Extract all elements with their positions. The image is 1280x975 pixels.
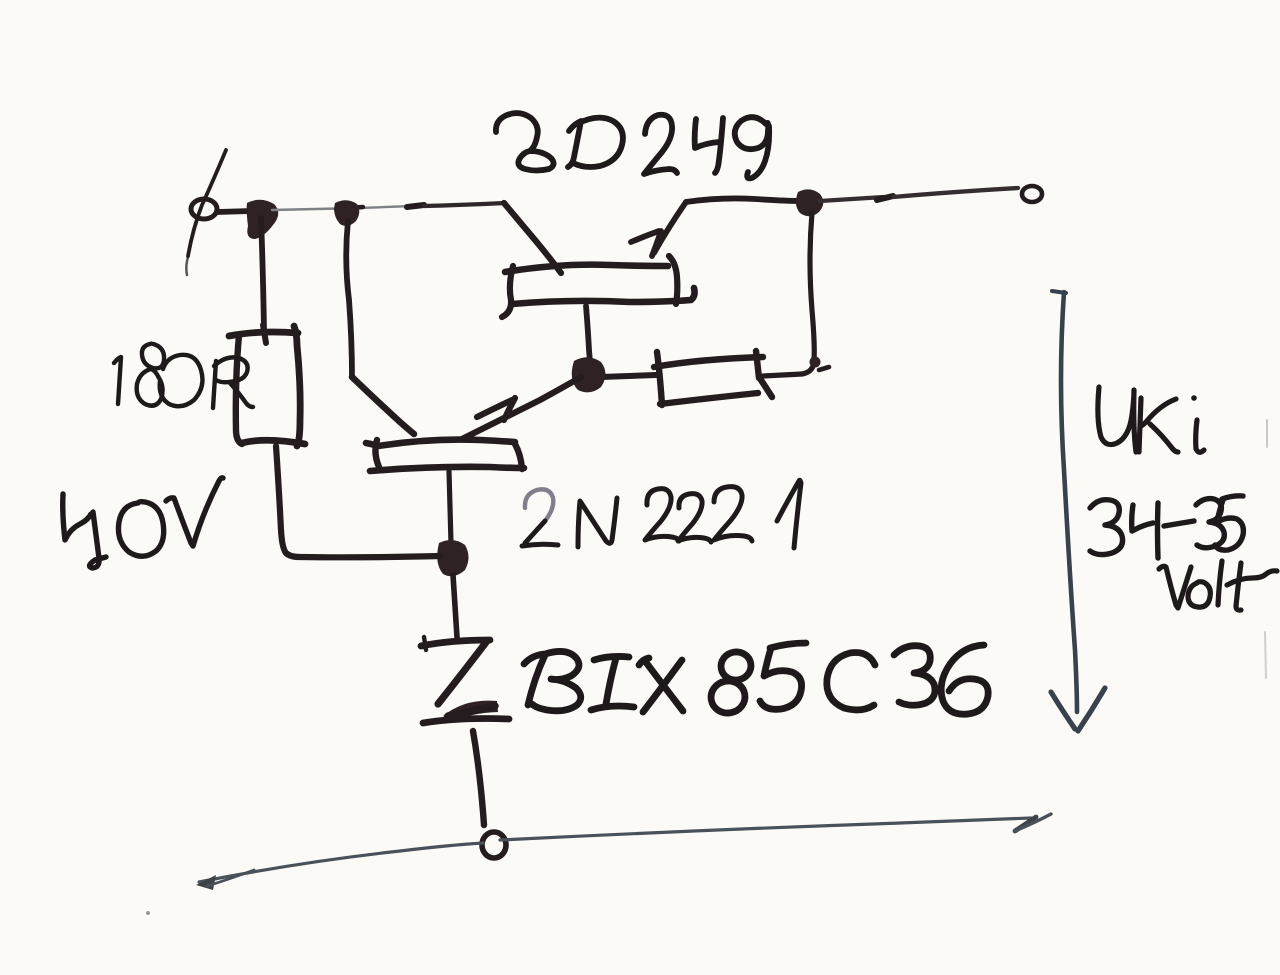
node C (junction, top right) — [796, 189, 823, 216]
wire zener bottom lead — [473, 731, 484, 825]
wire zener top lead (from node E) — [453, 575, 457, 637]
label Volt (right) — [1159, 561, 1277, 610]
wire top middle (thin pencil-like section) — [272, 206, 412, 210]
wire top right to output junction — [686, 198, 801, 202]
label BZX85C36 (zener value) — [524, 643, 988, 716]
wire right riser from node C down to resistor — [802, 213, 814, 374]
wire from input terminal to first junction — [217, 211, 251, 212]
node B (junction feeding 2N2221 collector riser) — [334, 200, 359, 226]
wire junction C to output terminal — [820, 197, 884, 201]
zener diode BZX85C36 — [421, 637, 509, 723]
wire 2N2221 collector riser — [346, 221, 352, 377]
wire 2N2221 collector diagonal — [352, 377, 414, 434]
wire 180R top lead — [261, 218, 264, 330]
wire 2N2221 emitter with arrow to node D — [462, 377, 581, 439]
transistor BD249 body — [502, 256, 695, 368]
label BD249 (top) — [496, 113, 769, 178]
node E (junction, 40V branch / zener top) — [437, 540, 468, 576]
arrow UKi (right side, pointing down) — [1051, 291, 1105, 731]
wire BD249 collector (diagonal from top rail) — [504, 203, 561, 273]
node A (junction, top of 180R) — [247, 200, 279, 239]
input terminal (phi symbol, top-left) — [186, 150, 226, 275]
output terminal (open circle, top right) — [1022, 186, 1042, 202]
label 180R (left resistor value) — [114, 344, 253, 408]
wire overdraw dark segments on top rail — [336, 207, 363, 209]
wire BD249 emitter with arrow to top rail — [631, 202, 686, 256]
label 40V (left, supply) — [63, 478, 223, 568]
label 34-35 (right, voltage range) — [1090, 496, 1243, 558]
wire 180R bottom lead + 40V branch elbow to node E — [276, 446, 440, 557]
resistor R2 (horizontal, BD249 base) — [601, 351, 829, 405]
scanner edge artifacts right side — [1266, 420, 1268, 447]
resistor 180R body (vertical) — [229, 325, 305, 446]
wire bottom rail (right half) — [500, 818, 1031, 840]
bottom rail left end blob and barb — [196, 875, 216, 890]
wire bottom rail (left half) — [199, 843, 483, 882]
transistor 2N2221 body — [366, 440, 524, 543]
label UKi (right, output voltage name) — [1098, 387, 1204, 452]
node D (junction at BD249 base / R2 / 2N2221 emitter) — [572, 357, 606, 392]
bottom rail right end hook — [1015, 817, 1036, 831]
label 2N2221 (middle transistor) — [522, 480, 801, 548]
node F (bottom junction, small loop) — [482, 832, 506, 858]
